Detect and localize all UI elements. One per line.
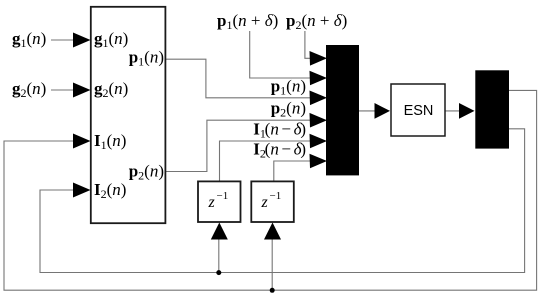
arrowhead p2(n) into mux	[310, 113, 328, 128]
wire z2 input from lower feedback line	[271, 237, 273, 290]
wire p1(n+delta) to mux	[250, 31, 312, 78]
svg-text:g2(n): g2(n)	[94, 79, 128, 100]
arrowhead into z2 bottom	[264, 223, 281, 240]
wire ESN output to output bar	[445, 110, 463, 112]
z1 delay box	[198, 181, 241, 222]
svg-text:g2(n): g2(n)	[12, 79, 46, 100]
arrowhead p1(n+delta) into mux	[310, 71, 328, 86]
svg-text:g1(n): g1(n)	[94, 29, 128, 50]
svg-text:z: z	[261, 194, 269, 211]
svg-text:p1(n + δ): p1(n + δ)	[217, 11, 278, 32]
wire g1 input	[51, 39, 77, 41]
arrowhead I1 into B1	[73, 134, 91, 149]
wire z2 output to mux (I2(n-delta))	[274, 161, 312, 181]
wire p2(n) from B1 to mux	[166, 120, 312, 171]
wire z1 output to mux (I1(n-delta))	[220, 141, 313, 181]
wire feedback upper: output bar bottom tap to I2 input	[40, 129, 525, 273]
arrowhead mux out into ESN	[375, 103, 391, 119]
svg-text:p1(n): p1(n)	[271, 77, 306, 98]
wire feedback lower: output bar top tap to I1 input	[4, 90, 537, 290]
arrowhead p2(n+delta) into mux	[310, 51, 328, 66]
svg-text:g1(n): g1(n)	[12, 29, 46, 50]
wire g2 input	[51, 89, 77, 91]
svg-text:I1(n): I1(n)	[94, 131, 126, 152]
arrowhead I2 into B1	[73, 183, 91, 198]
arrowhead I2(n-d) into mux	[310, 154, 328, 169]
arrowhead I1(n-d) into mux	[310, 134, 328, 149]
svg-text:−1: −1	[270, 190, 282, 202]
arrowhead p1(n) into mux	[310, 91, 328, 106]
wire z1 input from upper feedback line	[218, 237, 220, 273]
mux bar	[326, 45, 359, 175]
svg-text:p2(n + δ): p2(n + δ)	[286, 11, 347, 32]
svg-text:p2(n): p2(n)	[129, 162, 164, 183]
junction dot on lower feedback line (z2 tap)	[270, 288, 275, 293]
arrowhead into z1 bottom	[211, 223, 228, 240]
wire mux output to ESN	[359, 110, 378, 112]
arrowhead ESN out into output bar	[459, 103, 475, 119]
arrowhead g1 into B1	[73, 33, 91, 48]
wire p2(n+delta) to mux	[305, 31, 312, 58]
svg-text:I2(n): I2(n)	[94, 180, 126, 201]
wire p1(n) from B1 to mux	[166, 59, 312, 98]
svg-text:ESN: ESN	[404, 103, 434, 119]
junction dot on upper feedback line (z1 tap)	[216, 270, 221, 275]
output bar	[475, 70, 509, 148]
svg-text:−1: −1	[217, 190, 229, 202]
svg-text:z: z	[208, 194, 216, 211]
arrowhead g2 into B1	[73, 83, 91, 98]
ESN box	[391, 84, 445, 136]
svg-text:p1(n): p1(n)	[129, 48, 164, 69]
block B1 (input block)	[91, 7, 166, 223]
svg-text:p2(n): p2(n)	[271, 99, 306, 120]
z2 delay box	[251, 181, 293, 222]
